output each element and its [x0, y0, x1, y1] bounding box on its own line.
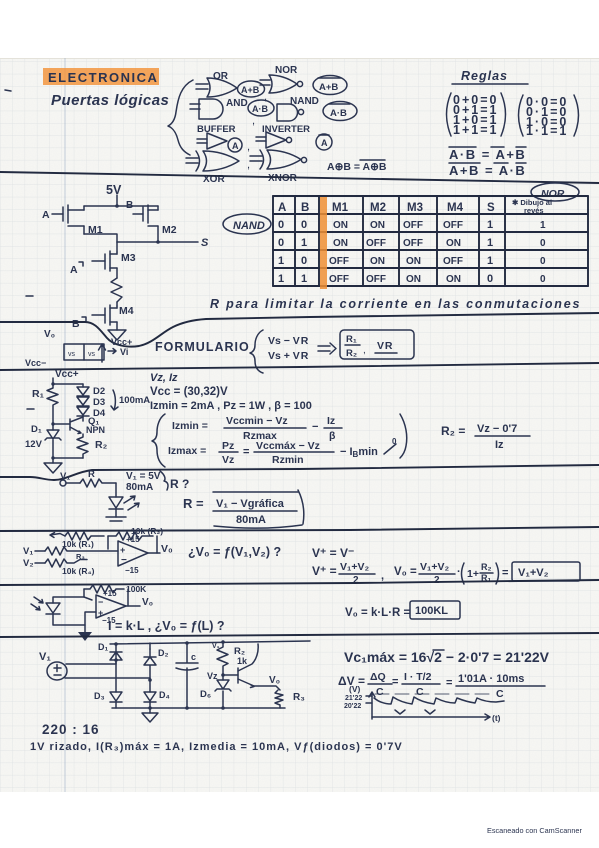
svg-text:1: 1 — [487, 237, 493, 249]
svg-text:A·B: A·B — [330, 108, 347, 119]
svg-text:1·1=1: 1·1=1 — [526, 124, 568, 138]
svg-text:ΔQ: ΔQ — [370, 671, 386, 683]
margin line — [64, 58, 66, 792]
svg-text:M2: M2 — [162, 224, 177, 236]
svg-text:S: S — [487, 202, 495, 214]
svg-text:5V: 5V — [106, 183, 122, 197]
svg-text:0: 0 — [278, 219, 284, 231]
svg-text:Vz: Vz — [222, 454, 234, 466]
svg-text:C: C — [376, 686, 384, 698]
diode D2 — [82, 384, 84, 387]
svg-text:80mA: 80mA — [126, 482, 153, 493]
svg-text:R para limitar la corriente en: R para limitar la corriente en las conmu… — [210, 297, 581, 311]
NAND oval label — [223, 214, 271, 234]
svg-text:+15: +15 — [103, 589, 117, 598]
svg-text:Pz: Pz — [222, 440, 234, 452]
svg-text:AND: AND — [226, 98, 248, 109]
node Vz — [221, 673, 225, 677]
ground bridge — [149, 708, 151, 713]
op-amp U1 — [118, 541, 148, 566]
svg-text:D₄: D₄ — [159, 690, 170, 700]
transistor M3 (NMOS) — [116, 242, 118, 252]
svg-text:V₀: V₀ — [44, 329, 55, 340]
svg-text:A: A — [42, 209, 50, 221]
resistor R3 supply — [275, 690, 283, 708]
diode D4 — [77, 407, 89, 416]
rules product group — [519, 95, 524, 136]
OR gate — [207, 78, 237, 97]
wire feedback right to output — [127, 589, 129, 606]
svg-text:0: 0 — [540, 274, 546, 285]
svg-text:(t): (t) — [492, 713, 501, 723]
node circle A — [228, 138, 242, 152]
ripple waveform — [374, 697, 504, 704]
section divider 7 — [0, 633, 599, 637]
svg-text:Vz: Vz — [207, 671, 218, 681]
svg-text:0: 0 — [301, 219, 307, 231]
svg-text:·: · — [457, 566, 461, 578]
NOR gate inputs — [260, 80, 270, 85]
light arrows into photodiode — [31, 597, 43, 610]
wire source bottom — [65, 678, 150, 680]
svg-text:C: C — [496, 688, 504, 700]
svg-text:FORMULARIO: FORMULARIO — [155, 340, 250, 354]
svg-text:−: − — [98, 597, 103, 607]
svg-text:A+B: A+B — [241, 85, 260, 95]
svg-text:A: A — [70, 264, 78, 276]
svg-text:OFF: OFF — [403, 220, 423, 231]
svg-text:1: 1 — [487, 219, 493, 231]
svg-text:1: 1 — [487, 255, 493, 267]
svg-text:¿V₀ = ƒ(V₁,V₂) ?: ¿V₀ = ƒ(V₁,V₂) ? — [188, 545, 281, 559]
svg-text:1: 1 — [301, 273, 307, 285]
svg-text:Reglas: Reglas — [461, 69, 508, 83]
transistor Q2 — [223, 674, 238, 676]
section divider 5 — [0, 527, 599, 531]
node dot S line — [156, 240, 160, 244]
wire source top — [66, 660, 116, 664]
svg-text:Vc₁máx = 16√2 − 2·0'7 = 21'22V: Vc₁máx = 16√2 − 2·0'7 = 21'22V — [344, 649, 550, 665]
svg-text:M4: M4 — [447, 202, 464, 214]
svg-text:+15: +15 — [126, 535, 140, 544]
svg-text:Vz − 0'7: Vz − 0'7 — [477, 423, 517, 435]
diode D4 — [144, 692, 156, 702]
svg-text:D₁: D₁ — [98, 642, 108, 652]
svg-text:Vcc−: Vcc− — [25, 358, 46, 368]
section divider 6 — [0, 580, 599, 585]
resistor R4 — [45, 559, 87, 567]
svg-text:Vccmáx − Vz: Vccmáx − Vz — [256, 440, 320, 452]
svg-text:C: C — [416, 686, 424, 698]
wire photodiode top to op-amp — [53, 597, 92, 603]
ground photodiode — [84, 625, 86, 632]
svg-text:V₁ − Vgráfica: V₁ − Vgráfica — [216, 498, 285, 510]
wire to ground — [52, 458, 54, 463]
svg-text:B: B — [72, 318, 80, 330]
boxed result V1+V2 — [512, 562, 580, 581]
section divider 2 (wavy around ground) — [0, 313, 599, 347]
big curly brace — [168, 80, 193, 155]
wire M1 drain to output — [84, 234, 117, 242]
svg-text:R₁: R₁ — [346, 334, 357, 345]
AND gate — [199, 99, 223, 119]
NOR oval label — [531, 183, 579, 201]
svg-text:M3: M3 — [121, 252, 136, 264]
wire output node S — [117, 241, 198, 243]
svg-text:1'01A · 10ms: 1'01A · 10ms — [458, 673, 524, 685]
svg-text:V⁺ =: V⁺ = — [312, 564, 337, 578]
svg-text:M3: M3 — [407, 202, 423, 214]
svg-text:Vcc+: Vcc+ — [111, 337, 132, 347]
transistor Q1 NPN — [53, 423, 70, 425]
svg-text:Iz: Iz — [327, 415, 335, 427]
svg-text:2: 2 — [434, 575, 440, 586]
svg-text:−: − — [312, 421, 318, 433]
resistor R3 — [45, 547, 118, 555]
svg-text:−15: −15 — [125, 566, 139, 575]
svg-text:20'22: 20'22 — [344, 703, 361, 710]
wire 5V to rail — [116, 195, 118, 206]
svg-text:,: , — [252, 115, 255, 127]
svg-text:1: 1 — [301, 237, 307, 249]
LED diode — [109, 497, 123, 509]
svg-text:1: 1 — [278, 273, 284, 285]
period marks — [395, 710, 435, 714]
svg-text:Vz, Iz: Vz, Iz — [150, 372, 178, 384]
waveform axes — [369, 692, 375, 719]
diode D1 — [110, 652, 122, 660]
XOR gate — [196, 151, 200, 171]
wire top rail regulator — [53, 383, 83, 385]
svg-text:(V): (V) — [349, 684, 361, 694]
orange highlight strip in table — [320, 197, 327, 289]
wire top rail — [84, 205, 158, 207]
svg-text:=: = — [446, 677, 452, 689]
100mA current arrow — [111, 390, 118, 410]
node oval A+B — [238, 81, 265, 97]
svg-text:1+1=1: 1+1=1 — [453, 123, 498, 137]
svg-text:ON: ON — [370, 220, 385, 231]
svg-text:A·B: A·B — [252, 104, 268, 114]
svg-text:,: , — [247, 141, 250, 153]
node circle A negated — [316, 134, 332, 150]
stray dash left margin — [26, 295, 33, 297]
wire down to LED — [115, 483, 117, 497]
svg-text:NAND: NAND — [233, 220, 265, 232]
svg-text:ON: ON — [446, 238, 461, 249]
svg-text:Vccmin − Vz: Vccmin − Vz — [226, 415, 288, 427]
svg-text:=: = — [243, 446, 249, 458]
node oval A+B negated — [313, 76, 347, 95]
svg-text:OR: OR — [213, 71, 229, 82]
svg-text:,: , — [381, 570, 384, 582]
comparator block — [64, 344, 104, 360]
svg-text:ON: ON — [370, 256, 385, 267]
svg-text:=: = — [502, 567, 508, 579]
wire R2 to bottom — [53, 457, 83, 459]
emitter wire Vo — [254, 686, 280, 690]
node oval A.B — [248, 100, 274, 116]
svg-text:OFF: OFF — [329, 256, 349, 267]
svg-text:V₀ = k·L·R =: V₀ = k·L·R = — [345, 607, 411, 619]
svg-text:OFF: OFF — [443, 220, 463, 231]
section divider 3 — [0, 363, 599, 370]
svg-text:R: R — [88, 469, 95, 480]
svg-text:Vi: Vi — [120, 347, 128, 357]
label Vi — [108, 349, 116, 354]
svg-text:revés: revés — [524, 206, 544, 215]
svg-text:12V: 12V — [25, 439, 43, 450]
svg-text:V₁+V₂: V₁+V₂ — [518, 567, 549, 579]
wire feedback to output — [156, 536, 158, 553]
svg-text:220 : 16: 220 : 16 — [42, 722, 100, 737]
op-amp U2 — [96, 595, 126, 618]
svg-text:Vs + V R: Vs + V R — [268, 350, 309, 362]
resistor R2 — [77, 434, 88, 458]
svg-text:M1: M1 — [332, 202, 349, 214]
svg-text:A·B = A+B: A·B = A+B — [449, 147, 526, 162]
bottom rail supply — [112, 707, 285, 709]
diode D2 — [144, 649, 156, 680]
svg-text:vs: vs — [88, 351, 96, 358]
svg-text:D₂: D₂ — [158, 648, 169, 658]
NOR gate — [269, 75, 297, 93]
svg-text:B: B — [301, 202, 309, 214]
svg-text:2: 2 — [353, 575, 359, 586]
stray dash top left — [5, 90, 11, 91]
highlighted title ELECTRONICA — [43, 68, 159, 85]
svg-text:1k: 1k — [237, 656, 248, 666]
XNOR gate — [260, 150, 264, 169]
ground bars LED — [106, 517, 126, 521]
node dots bridge — [114, 658, 118, 662]
svg-text:D3: D3 — [93, 397, 105, 408]
svg-text:R₂: R₂ — [95, 439, 108, 451]
svg-text:100K: 100K — [126, 584, 147, 594]
svg-text:R₁: R₁ — [32, 388, 44, 400]
svg-text:OFF: OFF — [366, 238, 386, 249]
svg-text:V₁+V₂: V₁+V₂ — [340, 561, 369, 573]
svg-text:OFF: OFF — [443, 256, 463, 267]
result box R1/R2, VR — [340, 330, 414, 359]
svg-text:D₃: D₃ — [94, 691, 105, 701]
svg-text:1: 1 — [540, 220, 546, 231]
node oval A.B negated — [323, 102, 357, 121]
svg-text:Izmax =: Izmax = — [168, 445, 206, 457]
svg-text:+: + — [120, 545, 125, 555]
svg-text:0: 0 — [540, 238, 546, 249]
AND gate inputs — [190, 104, 200, 109]
svg-text:R ?: R ? — [170, 477, 189, 491]
svg-text:A⊕B = A⊕B: A⊕B = A⊕B — [327, 161, 387, 173]
wire photodiode bottom to ground — [53, 612, 96, 625]
arrow implies — [318, 343, 336, 354]
wire D1 down — [115, 660, 117, 692]
svg-text:V₀: V₀ — [269, 675, 280, 686]
wire diode stack to Q1 — [82, 416, 84, 421]
feedback resistor R2 — [108, 532, 153, 540]
svg-text:R₂: R₂ — [481, 562, 492, 572]
svg-text:M4: M4 — [119, 305, 134, 317]
svg-text:c: c — [191, 652, 196, 662]
svg-text:1V rizado, I(R₃)máx = 1A, Izme: 1V rizado, I(R₃)máx = 1A, Izmedia = 10mA… — [30, 741, 403, 753]
svg-text:β: β — [329, 430, 336, 442]
svg-text:Vcc = (30,32)V: Vcc = (30,32)V — [150, 386, 228, 398]
resistor R2 supply — [221, 640, 225, 644]
svg-text:100mA: 100mA — [119, 395, 150, 406]
svg-text:1: 1 — [278, 255, 284, 267]
svg-text:D2: D2 — [93, 386, 105, 397]
zener D6 — [215, 680, 231, 691]
svg-text:=: = — [392, 676, 398, 688]
svg-text:− IBmin: − IBmin — [340, 446, 378, 459]
svg-text:I = k·L , ¿V₀ = ƒ(L) ?: I = k·L , ¿V₀ = ƒ(L) ? — [108, 619, 225, 633]
LED arrows — [124, 496, 139, 510]
svg-text:D₁: D₁ — [31, 424, 42, 435]
svg-text:D₆: D₆ — [200, 689, 211, 700]
svg-text:OFF: OFF — [403, 238, 423, 249]
svg-text:vs: vs — [68, 351, 76, 358]
svg-text:−: − — [121, 555, 127, 566]
svg-text:1+: 1+ — [467, 568, 479, 580]
wire Vcc stub — [52, 378, 54, 384]
wire V1 to R — [66, 482, 80, 484]
svg-text:S: S — [201, 237, 209, 249]
svg-text:ON: ON — [406, 256, 421, 267]
photodiode PD1 — [46, 603, 60, 614]
svg-text:80mA: 80mA — [236, 514, 266, 526]
svg-text:I · T/2: I · T/2 — [404, 671, 432, 683]
svg-text:A: A — [278, 202, 286, 214]
svg-text:Vcc+: Vcc+ — [55, 369, 79, 380]
feedback resistor 100k — [84, 585, 124, 593]
svg-text:NOR: NOR — [275, 65, 298, 76]
wire feedback node up — [83, 589, 85, 597]
XNOR gate inputs — [250, 156, 262, 161]
svg-text:Puertas lógicas: Puertas lógicas — [51, 92, 169, 109]
svg-text:Iz: Iz — [495, 439, 504, 451]
svg-text:V₁: V₁ — [23, 546, 33, 557]
svg-text:ON: ON — [333, 238, 348, 249]
diode D3 — [77, 397, 89, 406]
ground arrow op-amp R1 — [50, 533, 65, 538]
svg-text:OFF: OFF — [366, 274, 386, 285]
transistor M4 (NMOS) — [116, 302, 118, 306]
wire LED to ground — [115, 509, 117, 517]
top rail supply — [110, 641, 310, 644]
svg-text:A+B = A·B: A+B = A·B — [449, 163, 526, 178]
OR gate inputs — [196, 84, 208, 89]
svg-text:10k (R₄): 10k (R₄) — [62, 566, 95, 576]
svg-text:ON: ON — [333, 220, 348, 231]
svg-text:A: A — [321, 138, 328, 148]
svg-text:V₁ = 5V: V₁ = 5V — [126, 471, 161, 482]
svg-text:BUFFER: BUFFER — [197, 124, 236, 135]
output wire Vo — [148, 552, 160, 554]
ground symbol CMOS — [108, 330, 126, 340]
svg-text:0: 0 — [278, 237, 284, 249]
section divider 4 (wavy around ground) — [0, 465, 599, 480]
svg-text:,: , — [363, 345, 366, 356]
svg-text:10k (R₁): 10k (R₁) — [62, 539, 94, 549]
rules sum group — [447, 93, 452, 136]
zener D1 — [52, 424, 54, 430]
svg-text:21'22: 21'22 — [345, 695, 362, 702]
svg-text:ON: ON — [406, 274, 421, 285]
svg-text:0: 0 — [487, 273, 493, 285]
svg-text:V₀ =: V₀ = — [394, 566, 417, 578]
svg-text:ELECTRONICA: ELECTRONICA — [48, 70, 158, 85]
section divider 1 — [0, 172, 599, 183]
XOR gate inputs — [186, 158, 198, 163]
svg-text:V R: V R — [377, 340, 393, 352]
arrow up — [99, 344, 106, 362]
svg-text:B: B — [126, 200, 133, 211]
svg-text:R =: R = — [183, 496, 204, 511]
paper top edge — [0, 58, 599, 60]
svg-text:Rzmin: Rzmin — [272, 454, 304, 466]
NAND gate — [277, 104, 298, 121]
svg-text:Izmin =: Izmin = — [172, 420, 208, 432]
svg-text:0: 0 — [301, 255, 307, 267]
node dot 5V rail — [115, 204, 119, 208]
svg-text:Vs − V R: Vs − V R — [268, 335, 309, 347]
closing brace — [400, 414, 407, 458]
ground symbol regulator — [44, 463, 62, 473]
truth table frame — [273, 196, 588, 286]
capacitor C — [176, 643, 198, 708]
wire D2 down — [149, 680, 151, 692]
big brace regulator — [152, 414, 165, 467]
svg-text:R₃: R₃ — [293, 692, 305, 703]
resistor squiggle between M3 and M4 — [111, 278, 122, 302]
svg-text:V₀: V₀ — [142, 597, 153, 608]
svg-text:100KL: 100KL — [415, 605, 448, 617]
svg-text:A+B: A+B — [319, 82, 338, 93]
svg-text:V₁+V₂: V₁+V₂ — [420, 561, 449, 573]
svg-text:V₁: V₁ — [39, 651, 51, 663]
svg-text:V⁺ = V⁻: V⁺ = V⁻ — [312, 546, 354, 560]
svg-text:V₂: V₂ — [23, 558, 34, 569]
svg-text:A: A — [232, 141, 239, 151]
wire feedback node down — [107, 536, 109, 549]
svg-text:0: 0 — [540, 256, 546, 267]
svg-text:R₂: R₂ — [346, 348, 357, 359]
brace — [250, 330, 263, 373]
svg-text:M2: M2 — [370, 202, 386, 214]
output wire Vo photo — [126, 605, 140, 607]
svg-text:XNOR: XNOR — [268, 173, 298, 184]
svg-text:ON: ON — [446, 274, 461, 285]
resistor R1 op-amp — [65, 532, 104, 540]
stray dash left margin 2 — [27, 408, 34, 410]
svg-text:V₀: V₀ — [161, 543, 173, 555]
svg-text:NPN: NPN — [86, 425, 105, 435]
svg-text:Izmin = 2mA , Pz = 1W , β = 10: Izmin = 2mA , Pz = 1W , β = 100 — [150, 400, 312, 412]
diode D3 — [110, 692, 122, 702]
svg-text:R₂ =: R₂ = — [441, 424, 465, 438]
svg-text:Escaneado con CamScanner: Escaneado con CamScanner — [487, 826, 582, 835]
svg-text:OFF: OFF — [329, 274, 349, 285]
brace R? — [160, 471, 168, 490]
svg-text:NAND: NAND — [290, 96, 319, 107]
